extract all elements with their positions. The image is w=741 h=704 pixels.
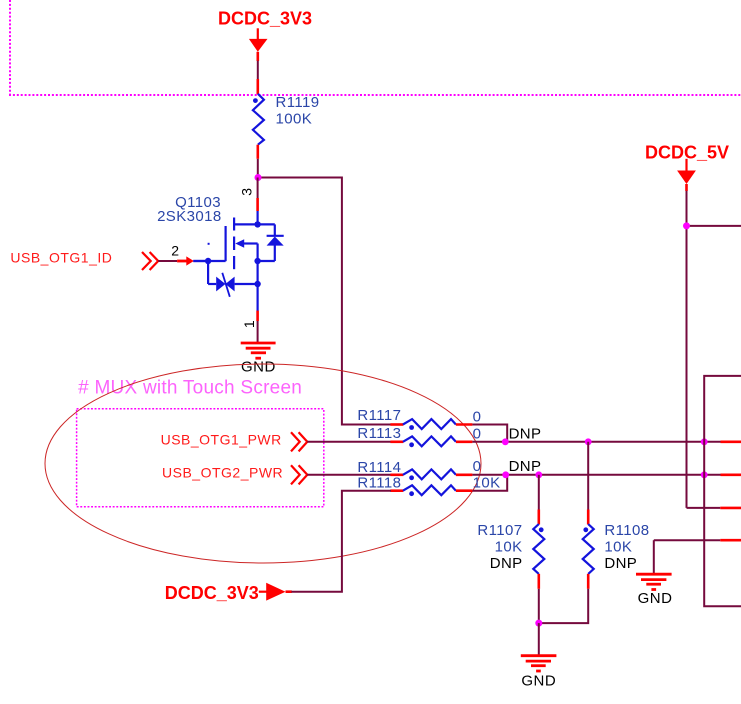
- svg-text:DNP: DNP: [509, 426, 542, 443]
- junction GND node: [535, 620, 542, 627]
- svg-text:USB_OTG2_PWR: USB_OTG2_PWR: [162, 464, 283, 480]
- gate protection zener: [207, 261, 209, 284]
- svg-text:DCDC_3V3: DCDC_3V3: [165, 583, 259, 603]
- wire node to Q1103 pin 3: [257, 178, 259, 199]
- svg-text:2SK3018: 2SK3018: [157, 208, 222, 225]
- wire right bus: [704, 376, 741, 606]
- wire GND node to ground: [538, 623, 540, 656]
- svg-text:10K: 10K: [604, 539, 632, 556]
- wire USB_OTG1_ID to gate: [158, 256, 208, 265]
- wire DCDC_3V3 to R1119: [257, 61, 259, 80]
- resistor R1113 0 DNP: [357, 425, 541, 447]
- svg-text:R1118: R1118: [357, 474, 401, 491]
- power symbol DCDC_5V: [645, 143, 729, 191]
- gate lead: [193, 260, 225, 262]
- gate node dot: [205, 258, 211, 264]
- svg-text:R1119: R1119: [276, 94, 320, 111]
- svg-text:DCDC_3V3: DCDC_3V3: [218, 9, 312, 29]
- wire R1108 bottom to GND node: [539, 589, 588, 623]
- svg-text:R1117: R1117: [357, 407, 401, 424]
- annotation ellipse: [45, 364, 481, 563]
- svg-text:2: 2: [171, 242, 179, 258]
- svg-text:R1108: R1108: [604, 522, 649, 539]
- svg-text:10K: 10K: [473, 475, 501, 492]
- resistor R1119 100K: [253, 79, 320, 159]
- wire GND row to right edge: [654, 540, 741, 574]
- wire R1114 net to right edge: [472, 474, 741, 476]
- junction R1113 net: [502, 438, 509, 445]
- svg-text:1: 1: [241, 320, 257, 328]
- source node dot: [254, 258, 260, 264]
- svg-text:GND: GND: [521, 673, 556, 690]
- svg-text:R1113: R1113: [357, 425, 401, 442]
- port USB_OTG1_PWR: [161, 431, 308, 451]
- pin1 red stub: [256, 311, 259, 321]
- resistor R1108 10K DNP: [583, 510, 650, 589]
- wire USB_OTG1_PWR to R1113: [307, 441, 391, 443]
- gate plate: [225, 226, 227, 261]
- pin3 red stub: [256, 198, 259, 211]
- junction R1114 net: [502, 471, 509, 478]
- ground GND (bottom): [521, 656, 557, 690]
- svg-text:USB_OTG1_ID: USB_OTG1_ID: [10, 249, 112, 265]
- svg-text:DNP: DNP: [490, 555, 523, 572]
- resistor R1117 0: [357, 407, 481, 430]
- drain node dot: [254, 221, 260, 227]
- port USB_OTG2_PWR: [162, 464, 307, 484]
- resistor R1107 10K DNP: [477, 510, 544, 589]
- svg-text:GND: GND: [638, 590, 673, 607]
- svg-text:0: 0: [473, 458, 482, 475]
- wire node to right and down to R1117: [258, 178, 391, 425]
- wire pin1 to GND: [257, 321, 259, 343]
- resistor R1114 0 DNP: [357, 458, 541, 480]
- annotation dotted box: [77, 409, 324, 507]
- svg-text:# MUX with Touch Screen: # MUX with Touch Screen: [78, 378, 302, 399]
- wire R1119 to node: [257, 159, 259, 179]
- drain horizontal: [234, 223, 275, 225]
- ground GND (right): [636, 574, 672, 607]
- svg-text:0: 0: [473, 409, 482, 426]
- junction right bus A: [701, 438, 708, 445]
- svg-text:GND: GND: [241, 359, 276, 376]
- wire R1118 right to R1114 net: [472, 475, 507, 491]
- power symbol DCDC_3V3 (top): [218, 9, 312, 61]
- junction node drain: [255, 174, 262, 181]
- svg-text:DNP: DNP: [604, 555, 637, 572]
- junction R1108 top: [585, 438, 592, 445]
- junction right bus B: [701, 471, 708, 478]
- body diode: [274, 224, 276, 236]
- power symbol DCDC_3V3 (bottom): [165, 583, 292, 603]
- small dot above gate: [208, 243, 210, 245]
- pin 2 label: [171, 242, 179, 258]
- svg-text:USB_OTG1_PWR: USB_OTG1_PWR: [161, 431, 282, 447]
- sheet border dotted magenta: [9, 0, 741, 95]
- wire R1117 right to R1113 net: [472, 425, 507, 442]
- wire R1113 net to right edge: [472, 441, 741, 443]
- wire R1107 hanger: [538, 475, 540, 510]
- transistor Q1103 2SK3018: [157, 194, 284, 321]
- resistor R1118 10K: [357, 474, 500, 496]
- bottom node dot: [254, 281, 260, 287]
- port USB_OTG1_ID: [10, 249, 158, 270]
- channel segments: [233, 218, 235, 231]
- svg-text:3: 3: [239, 188, 255, 196]
- svg-text:100K: 100K: [276, 111, 313, 128]
- svg-text:0: 0: [473, 426, 482, 443]
- annotation MUX note: [78, 378, 302, 399]
- junction DCDC_5V: [683, 222, 690, 229]
- svg-text:10K: 10K: [495, 539, 523, 556]
- wire USB_OTG2_PWR to R1114: [307, 474, 391, 476]
- pin 3 label: [239, 188, 255, 196]
- wire DCDC_5V down and right: [687, 191, 741, 508]
- svg-text:R1114: R1114: [357, 459, 401, 476]
- wire R1108 hanger: [587, 442, 589, 510]
- pin 1 label: [241, 320, 257, 328]
- ground GND (under Q1103): [241, 343, 276, 376]
- source arrow: [235, 239, 244, 248]
- svg-text:R1107: R1107: [477, 522, 522, 539]
- wire R1107 bottom to GND node: [538, 589, 540, 624]
- junction R1107 top: [535, 471, 542, 478]
- wire DCDC_3V3 to R1118: [291, 491, 391, 592]
